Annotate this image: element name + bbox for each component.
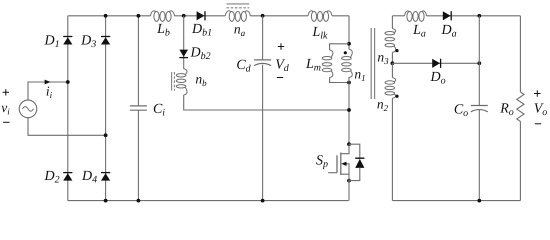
node AC1 — [66, 80, 70, 84]
winding na — [225, 11, 250, 22]
wire bridge leg1 — [67, 16, 69, 201]
node nb junction — [347, 108, 351, 112]
voltage source vi — [19, 100, 37, 118]
winding n2 — [385, 63, 396, 200]
wire nb to drain node — [184, 95, 349, 110]
label Llk — [311, 25, 328, 42]
mosfet Sp — [328, 142, 351, 182]
label Co — [454, 103, 468, 120]
wire tap to Do — [392, 62, 479, 64]
node Ci top — [137, 14, 141, 18]
label Ci — [153, 102, 165, 119]
label Ro — [499, 102, 514, 119]
node Co top — [477, 14, 481, 18]
wire primary vertical top — [348, 16, 350, 49]
node bottom leg2 — [104, 199, 108, 203]
label vi with polarity — [1, 89, 10, 122]
core na — [227, 4, 250, 8]
label Da — [440, 23, 456, 40]
node AC2 — [104, 133, 108, 137]
diode Do — [432, 59, 440, 68]
winding nb — [176, 69, 187, 95]
diode D1 — [63, 37, 72, 45]
node Ci bottom — [137, 199, 141, 203]
inductor Lb — [151, 11, 175, 22]
diode Db1 — [197, 11, 205, 20]
inductor Lm — [322, 44, 349, 83]
node top leg2 — [104, 14, 108, 18]
node Do out — [477, 61, 481, 65]
label Vo with polarity — [534, 90, 548, 124]
node tap n3 n2 — [391, 61, 395, 65]
node Cd bottom — [261, 199, 265, 203]
winding n3 — [385, 16, 396, 64]
winding n1 — [342, 49, 353, 77]
wire bridge leg2 — [105, 16, 107, 201]
label Sp — [316, 153, 328, 170]
label D2 — [43, 169, 59, 186]
capacitor Co — [471, 16, 488, 201]
wire top rail primary — [68, 15, 349, 17]
label nb — [195, 72, 207, 89]
node Lm bottom — [347, 81, 351, 85]
wire top rail secondary — [392, 15, 520, 17]
wire bottom rail secondary — [392, 200, 520, 202]
polarity dot n1 — [344, 51, 347, 54]
wire Sp source to bottom rail — [348, 181, 350, 201]
label La — [412, 23, 426, 40]
capacitor Cd — [254, 16, 271, 201]
node Lm top — [347, 42, 351, 46]
label Lm — [305, 57, 321, 74]
label D3 — [80, 34, 96, 51]
label n2 — [377, 97, 389, 114]
inductor La — [405, 11, 427, 22]
label n1 — [354, 67, 365, 84]
wire bottom rail primary — [68, 200, 349, 202]
diode Db2 — [179, 50, 188, 58]
label D4 — [81, 169, 97, 186]
label Do — [429, 70, 445, 87]
label D1 — [43, 34, 59, 51]
node Cd top — [261, 14, 265, 18]
inductor Llk — [308, 11, 332, 22]
wire Db2 branch — [183, 16, 185, 69]
polarity dot n2 — [395, 95, 398, 98]
wire source bottom to bridge — [28, 118, 106, 136]
transformer core — [371, 28, 374, 99]
diode D4 — [101, 173, 110, 181]
label Db1 — [191, 22, 212, 39]
capacitor Ci — [130, 16, 147, 201]
label na — [234, 22, 246, 39]
body diode of Sp — [349, 144, 364, 180]
label Lb — [156, 22, 170, 39]
diode Da — [443, 11, 451, 20]
wire primary vertical middle — [348, 77, 350, 144]
core nb — [172, 72, 175, 91]
label Cd — [236, 58, 251, 75]
label ii — [46, 84, 53, 101]
label Db2 — [189, 46, 210, 63]
node Co bottom — [477, 199, 481, 203]
label Vd with polarity — [275, 43, 290, 77]
node Db2 branch — [182, 14, 186, 18]
label n3 — [377, 50, 389, 67]
current arrow ii — [45, 80, 51, 85]
wire source top to bridge — [28, 82, 68, 100]
polarity dot n3 — [395, 49, 398, 52]
resistor Ro — [517, 16, 524, 201]
diode D2 — [63, 173, 72, 181]
diode D3 — [101, 37, 110, 45]
